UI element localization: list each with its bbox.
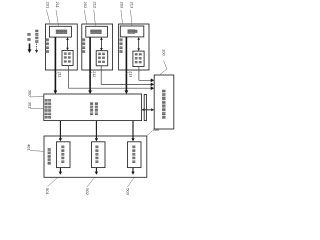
leader label 100 [160,61,168,75]
distribution board box 300 [44,94,142,121]
leader label 401 [30,150,44,153]
load box 2 [92,142,106,168]
svg-text:213: 213 [129,2,134,9]
svg-text:502: 502 [85,188,90,195]
leader label 502 [87,178,95,188]
svg-text:301: 301 [28,102,33,109]
load group outer box 400 [44,136,147,177]
unit 2 battery-control box [96,51,108,66]
leader label 503 [128,178,135,188]
unit 2 inner converter box 212 [86,26,108,37]
load1 text [61,146,64,164]
unit2 battery text col2 [102,53,105,63]
leader label 203 [121,10,123,24]
unit 3 battery-control box [133,51,144,66]
unit1 name vertical [46,39,49,53]
power bus wire unit1 [54,37,58,94]
svg-text:501: 501 [45,188,50,195]
unit1 battery text col1 [64,52,67,62]
svg-text:503: 503 [125,188,130,195]
unit 2 outer box 202 [82,24,113,70]
svg-text:211: 211 [55,2,60,9]
leader label 400 [147,131,152,136]
controller name vertical [162,90,165,119]
unit 1 battery-control box [62,50,73,65]
interface narrow box [144,94,146,120]
leader label 201 [47,10,51,24]
svg-text:212: 212 [93,2,98,9]
controller box 100 [154,75,174,129]
unit1 converter text [56,29,67,34]
leader label 300 [30,95,44,98]
board name col1 [45,99,48,119]
legend power arrow [28,44,32,54]
load3 text [132,146,135,164]
output arrow load2 [95,168,98,175]
svg-text:401: 401 [27,144,32,151]
svg-text:201: 201 [45,2,50,9]
double arrow converter to battery unit3 [137,37,140,51]
output arrow load3 [131,168,134,175]
legend text power [27,33,30,41]
leader label 211 [56,10,59,26]
svg-text:202: 202 [83,2,88,9]
load2 text [95,146,98,164]
leader label 213 [130,10,132,26]
signal wire unit1 to controller [69,66,155,91]
unit 1 outer box 201 [46,24,78,70]
unit3 battery text col1 [135,53,138,63]
legend text control signal [35,30,38,43]
board center text col2 [95,102,98,115]
feed arrow board to load2 [95,121,98,142]
double arrow converter to battery unit1 [66,37,69,50]
leader label 301 [30,107,44,109]
svg-text:203: 203 [120,2,125,9]
leader label 501 [48,178,58,187]
legend signal arrow dashed [35,44,38,54]
unit2 battery text col1 [98,53,101,63]
svg-text:100: 100 [162,49,167,56]
power bus wire unit2 [88,37,92,94]
unit3 battery text col2 [139,53,142,63]
leader label 212 [94,10,96,26]
signal wire unit3 to controller [139,67,154,83]
tick bus label 3 [126,72,128,73]
unit 1 inner converter box 211 [49,26,71,37]
unit2 name vertical [82,39,85,53]
output arrow load1 [59,168,62,175]
svg-text:212: 212 [92,71,96,77]
unit3 converter text part2 [134,30,137,34]
double arrow converter to battery unit2 [100,37,103,50]
unit3 name vertical [119,39,122,53]
board center text col1 [90,102,93,115]
double arrow board to controller [142,108,155,111]
feed arrow board to load1 [59,121,62,142]
unit3 converter text [128,29,136,34]
leader label 202 [84,10,86,24]
svg-text:300: 300 [28,90,33,97]
board name col2 [48,99,51,119]
load box 3 [128,142,142,168]
tick bus label 1 [55,73,57,74]
svg-text:400: 400 [153,127,160,132]
unit2 converter text [90,29,101,34]
load box 1 [57,142,71,168]
feed arrow board to load3 [131,121,134,142]
load group name vertical [48,148,51,165]
tick bus label 2 [90,72,92,73]
svg-text:211: 211 [58,72,62,78]
unit 3 outer box 203 [119,24,149,70]
svg-text:213: 213 [129,71,133,77]
signal wire unit2 to controller [101,66,154,87]
unit 3 inner converter box 213 [120,26,144,37]
unit1 battery text col2 [68,52,71,62]
power bus wire unit3 [125,37,129,94]
